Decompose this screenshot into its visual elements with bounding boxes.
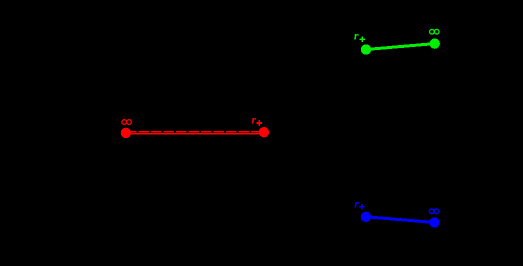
- red branch cut: solid lower line: [126, 133, 264, 135]
- blue right endpoint dot: [429, 217, 439, 227]
- green right endpoint dot: [430, 38, 440, 48]
- red branch cut: dashed upper line: [126, 131, 264, 133]
- green infinity label: [430, 29, 439, 34]
- blue segment line: [366, 217, 435, 223]
- red left endpoint dot: [121, 128, 131, 138]
- blue infinity label: [429, 209, 438, 214]
- svg-text:r: r: [252, 112, 257, 126]
- red right endpoint dot: [259, 127, 269, 137]
- svg-text:r: r: [354, 29, 359, 43]
- green segment line: [366, 44, 435, 50]
- green left endpoint dot: [361, 44, 371, 54]
- blue left endpoint dot: [361, 212, 371, 222]
- red infinity label: [122, 120, 131, 125]
- svg-text:r: r: [354, 196, 359, 210]
